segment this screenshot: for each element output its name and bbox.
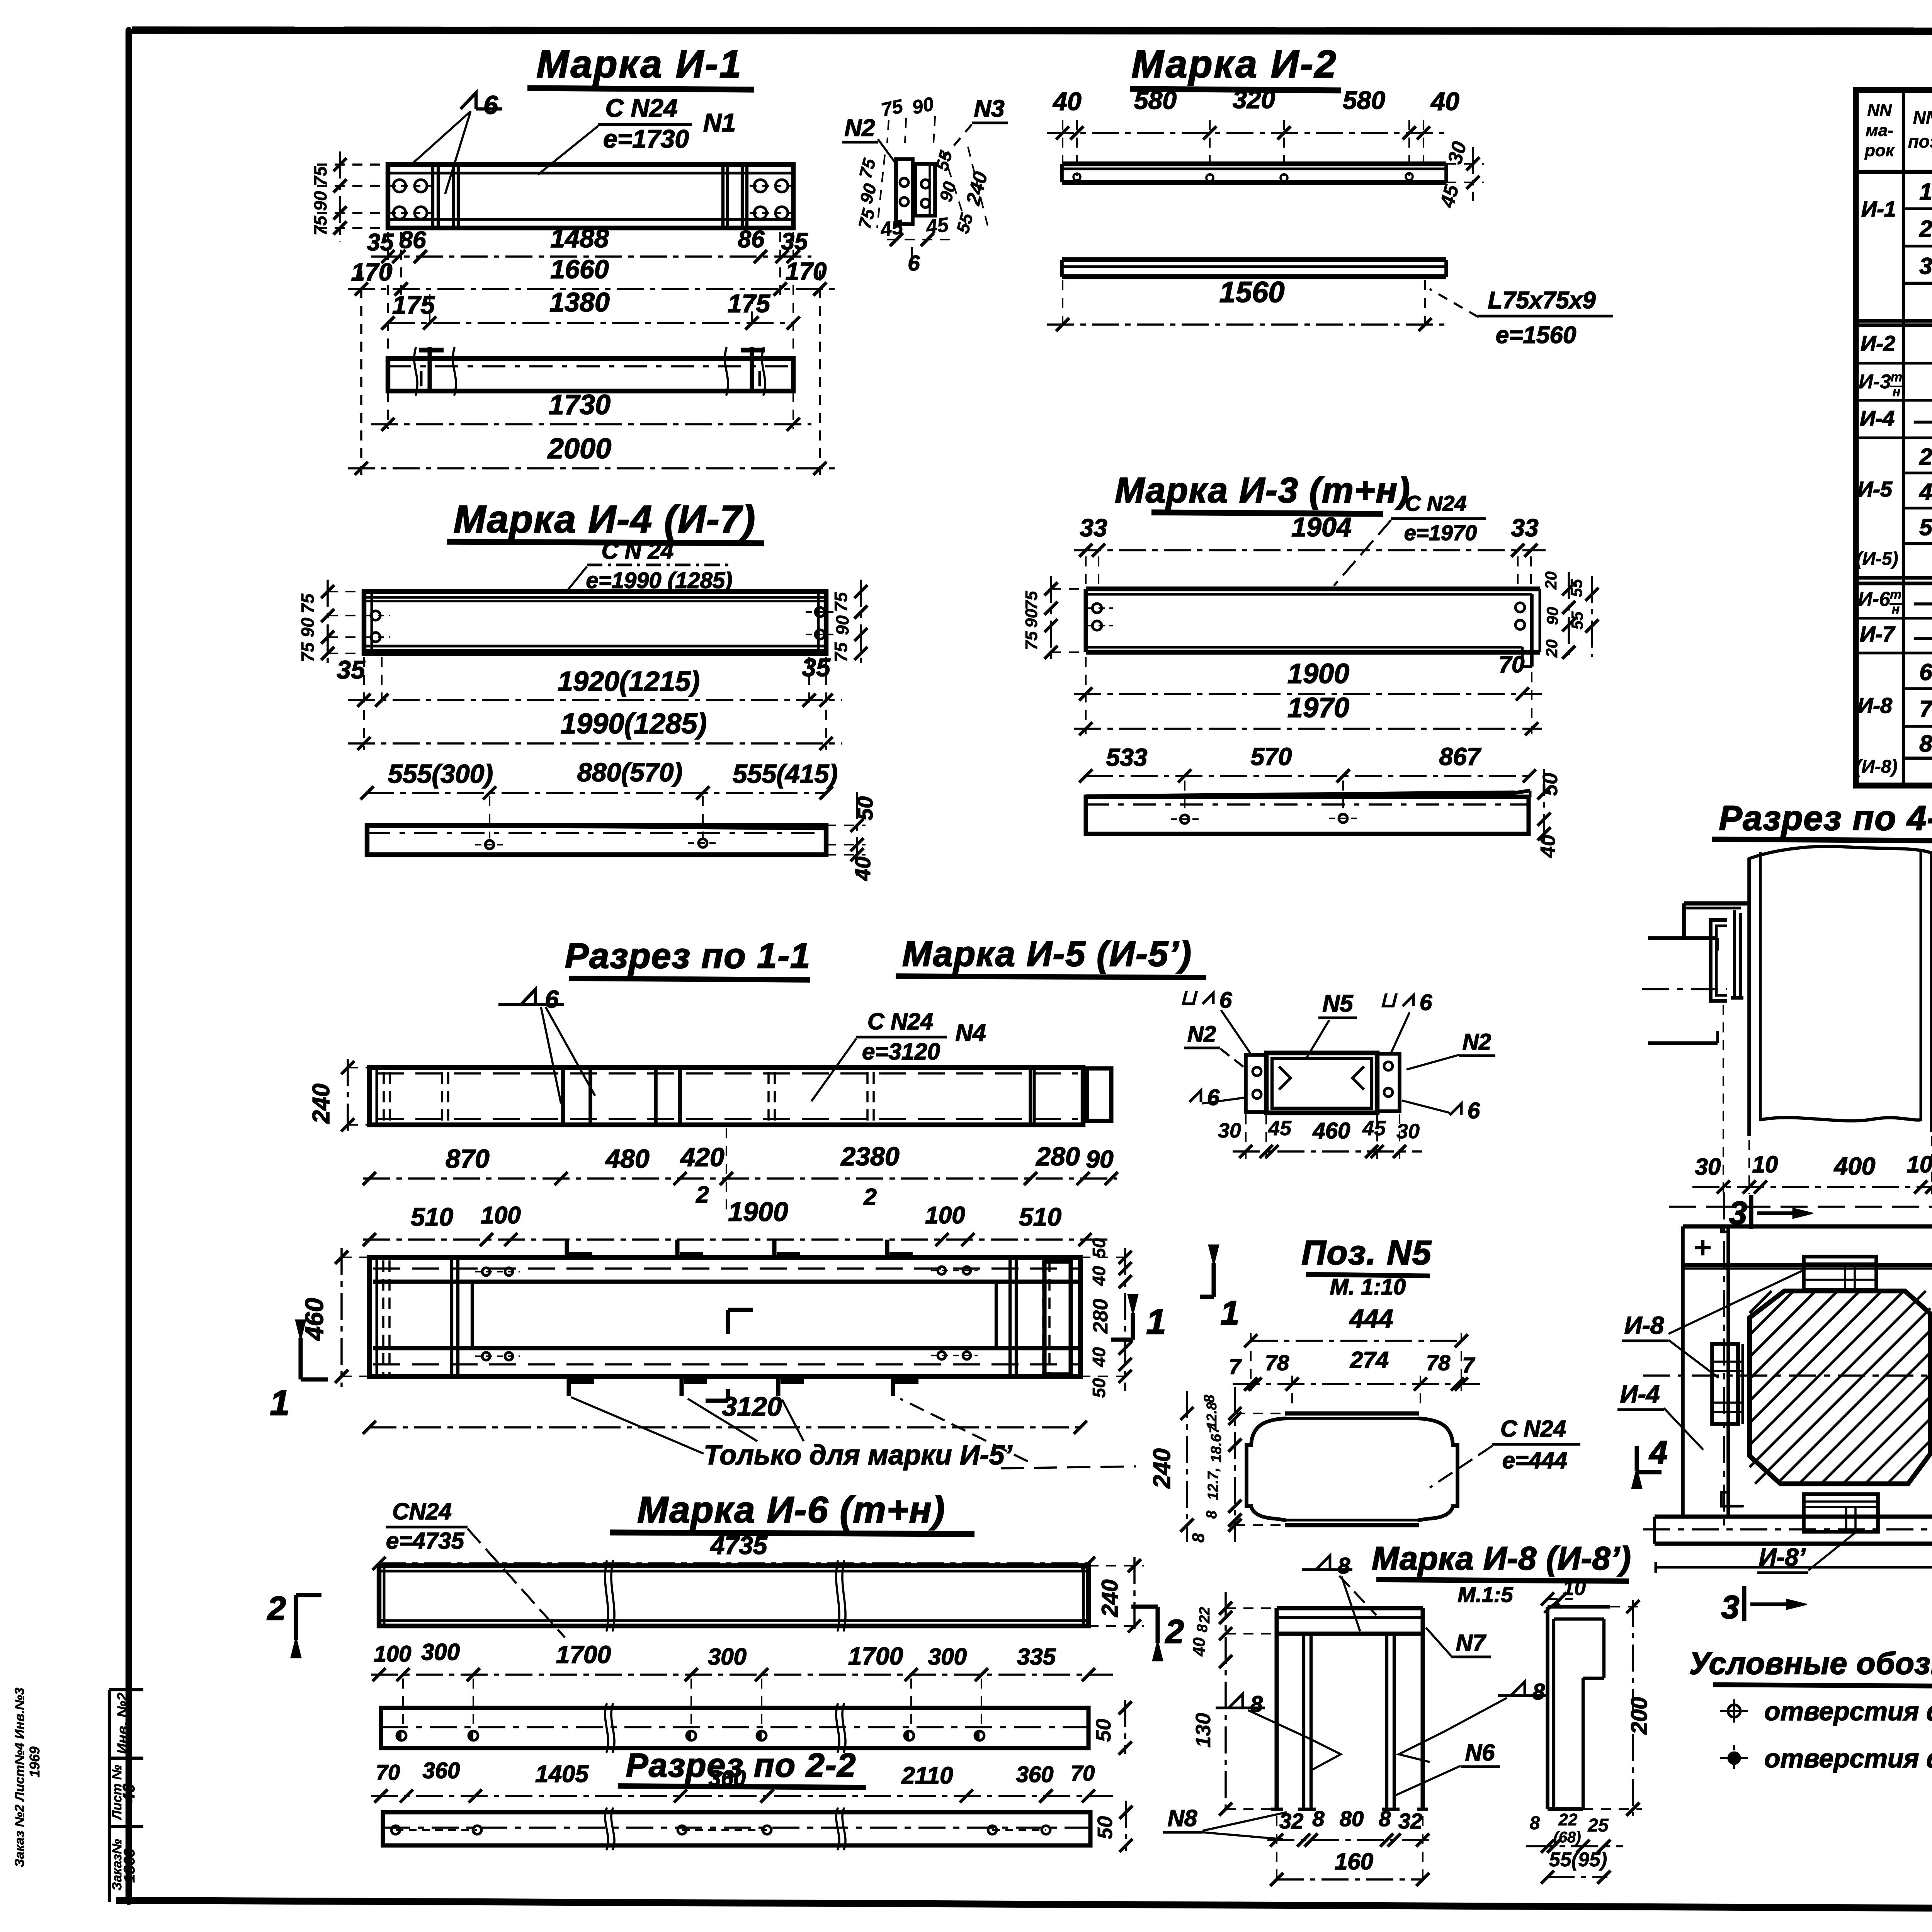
svg-text:335: 335 [1017, 1644, 1056, 1670]
svg-text:78: 78 [1265, 1350, 1289, 1375]
svg-text:170: 170 [351, 258, 393, 286]
svg-text:1900: 1900 [1287, 658, 1349, 689]
svg-text:N2: N2 [1187, 1022, 1216, 1047]
svg-text:444: 444 [1349, 1304, 1393, 1333]
weld mark Δ8 left [1216, 1692, 1341, 1770]
svg-text:1: 1 [1221, 1294, 1240, 1332]
title Поз. N5 [1301, 1233, 1432, 1299]
svg-text:1700: 1700 [848, 1642, 903, 1670]
И-6 flange rotated dim 50 [1092, 1700, 1132, 1755]
svg-text:555(415): 555(415) [733, 759, 838, 789]
plan И-2 top band [1683, 1226, 1932, 1269]
svg-text:50: 50 [1092, 1719, 1115, 1742]
svg-text:С N24: С N24 [867, 1009, 933, 1034]
svg-text:e=3120: e=3120 [862, 1039, 940, 1065]
svg-text:70: 70 [1071, 1761, 1095, 1785]
svg-text:(И-5): (И-5) [1856, 549, 1898, 569]
svg-text:8: 8 [1530, 1813, 1540, 1833]
beam И-4 bolt holes [367, 607, 835, 642]
svg-text:1730: 1730 [549, 389, 611, 420]
svg-text:М. 1:10: М. 1:10 [1330, 1274, 1406, 1299]
dimension extension lines И-1 [361, 232, 820, 475]
svg-text:50: 50 [1094, 1816, 1117, 1839]
section marker 1 поз [1200, 1245, 1239, 1332]
svg-text:200: 200 [1627, 1697, 1652, 1735]
specification table body rows [1914, 177, 1932, 760]
svg-text:35: 35 [367, 229, 394, 256]
svg-text:867: 867 [1439, 743, 1482, 770]
note Только для марки И-5 [571, 1397, 1136, 1471]
title Марка И-4 (И-7) [447, 498, 764, 543]
section marker 3 plan bottom [1721, 1586, 1807, 1625]
svg-text:L75x75x9: L75x75x9 [1488, 287, 1596, 314]
svg-text:1: 1 [270, 1383, 289, 1423]
dims 35 35 И-4 [337, 653, 831, 684]
svg-text:2: 2 [1919, 216, 1932, 242]
svg-text:50: 50 [1089, 1238, 1109, 1258]
svg-text:300: 300 [708, 1644, 747, 1670]
beam И-6 bottom strip [383, 1812, 1090, 1845]
svg-text:1405: 1405 [535, 1761, 589, 1787]
plan plus marks [1695, 1240, 1932, 1255]
svg-text:Разрез по 1-1: Разрез по 1-1 [565, 936, 811, 976]
svg-text:И-4: И-4 [1620, 1380, 1660, 1408]
dimension row 40 580 320 580 40 [1047, 85, 1459, 139]
svg-text:20: 20 [1542, 571, 1560, 590]
beam И-1 end plates [433, 165, 747, 228]
svg-text:Поз. N5: Поз. N5 [1301, 1233, 1432, 1272]
svg-text:6: 6 [908, 251, 920, 275]
svg-text:33: 33 [1080, 514, 1107, 542]
dims 7 78 274 78 7 [1229, 1333, 1480, 1410]
svg-text:N1: N1 [703, 108, 736, 137]
beam И-5 plan outline [369, 1257, 1080, 1376]
svg-text:т: т [1891, 370, 1902, 384]
left margin stamp boxes [109, 1690, 143, 1902]
dimension 1990(1285) [348, 657, 842, 750]
И-5 cross-section holes [1253, 1062, 1393, 1099]
svg-text:580: 580 [1134, 86, 1177, 114]
svg-text:С N24: С N24 [605, 94, 677, 122]
svg-text:55: 55 [1568, 611, 1586, 629]
svg-text:Только для марки И-5’: Только для марки И-5’ [704, 1440, 1013, 1471]
svg-text:35: 35 [781, 228, 808, 255]
beam И-6 bottom holes [391, 1826, 1050, 1834]
svg-text:рок: рок [1864, 141, 1895, 160]
svg-text:280: 280 [1035, 1142, 1080, 1171]
svg-text:2: 2 [267, 1590, 286, 1627]
label И-8 штрих plan bottom [1757, 1532, 1855, 1573]
beam И-3 plan view [1086, 791, 1530, 834]
beam И-5 plan end block [1044, 1262, 1071, 1374]
beam И-1 bolt holes right [750, 180, 793, 219]
svg-text:С N24: С N24 [1500, 1416, 1566, 1442]
pile hatching lines [1750, 1291, 1930, 1484]
dimension row 175 1380 175 [381, 287, 800, 330]
dims 533 570 867 [1079, 743, 1536, 782]
specification table header [1864, 98, 1932, 168]
beam И-3 bolt holes [1088, 603, 1525, 630]
svg-text:Марка И-6 (т+н): Марка И-6 (т+н) [637, 1489, 945, 1531]
И-5 cross-section side plates [1246, 1054, 1400, 1112]
beam И-1 plan clips [419, 347, 765, 391]
svg-text:75: 75 [298, 593, 318, 614]
svg-text:—: — [1914, 589, 1932, 615]
title Разрез по 2-2 [618, 1747, 866, 1787]
svg-text:3: 3 [1721, 1589, 1740, 1625]
label N2 left [1184, 1022, 1248, 1070]
legend hole d23 [1720, 1697, 1932, 1726]
svg-text:И-5: И-5 [1857, 477, 1893, 501]
angle И-2 top view [1062, 164, 1446, 182]
svg-text:40: 40 [1089, 1266, 1109, 1286]
svg-text:40: 40 [1430, 87, 1459, 116]
svg-text:Инв. №2: Инв. №2 [115, 1692, 131, 1754]
dimension 444 [1244, 1304, 1468, 1347]
svg-text:⊔: ⊔ [1180, 986, 1198, 1009]
svg-text:50: 50 [1539, 773, 1562, 796]
И-8 dim 160 [1270, 1816, 1429, 1886]
svg-text:1869: 1869 [121, 1848, 138, 1883]
svg-text:300: 300 [421, 1639, 460, 1665]
svg-text:130: 130 [1192, 1713, 1215, 1748]
И-8 bottom dims 32 8 80 8 32 [1267, 1806, 1434, 1847]
И-6 bottom rotated dim 50 [1094, 1801, 1133, 1852]
svg-text:И-8: И-8 [1857, 693, 1893, 718]
svg-text:6: 6 [483, 90, 498, 120]
svg-text:2380: 2380 [840, 1142, 899, 1171]
beam И-6 flange view [381, 1708, 1088, 1748]
svg-text:e=1970: e=1970 [1404, 520, 1477, 545]
svg-text:90: 90 [832, 615, 852, 635]
svg-text:N4: N4 [955, 1020, 986, 1046]
svg-text:70: 70 [376, 1760, 400, 1784]
svg-text:4: 4 [1649, 1434, 1668, 1471]
label И-4 plan left [1617, 1380, 1703, 1450]
plate N2 holes [900, 178, 908, 206]
label N8 [1163, 1805, 1287, 1839]
svg-text:N6: N6 [1465, 1740, 1495, 1765]
svg-text:22: 22 [1197, 1607, 1213, 1624]
И-8 front view walls [1271, 1608, 1428, 1809]
svg-text:45: 45 [1362, 1117, 1386, 1140]
svg-text:1488: 1488 [550, 224, 609, 253]
plan И-8 clamp bottom [1804, 1494, 1878, 1532]
svg-text:50: 50 [1089, 1378, 1109, 1398]
svg-text:Марка И-2: Марка И-2 [1131, 43, 1337, 86]
svg-text:280: 280 [1089, 1299, 1112, 1334]
label N7 [1426, 1628, 1491, 1657]
svg-text:—: — [1914, 408, 1932, 434]
plan top dashed line [1669, 1206, 1932, 1208]
И-5 right rotated dims 50 40 280 40 50 [1080, 1238, 1132, 1398]
svg-text:8: 8 [1312, 1806, 1325, 1831]
dimension row 35 86 1488 86 35 [367, 224, 811, 263]
svg-text:поз.: поз. [1908, 131, 1932, 151]
svg-text:460: 460 [1313, 1118, 1350, 1143]
svg-text:т: т [1890, 587, 1901, 602]
svg-text:1969: 1969 [27, 1747, 43, 1777]
svg-text:86: 86 [738, 226, 765, 253]
svg-text:Марка И-4 (И-7): Марка И-4 (И-7) [454, 498, 756, 541]
svg-text:6: 6 [1468, 1098, 1480, 1123]
plate rotated dims right 55 90 240 55 [932, 147, 992, 235]
svg-text:Марка И-1: Марка И-1 [536, 43, 742, 86]
svg-text:И-8: И-8 [1624, 1311, 1664, 1339]
И-8 left dims [1190, 1592, 1274, 1816]
svg-text:20: 20 [1543, 639, 1561, 658]
svg-text:N5: N5 [1322, 990, 1354, 1017]
section marker 1 left [270, 1320, 328, 1423]
label ⊔Δ6 left [1180, 986, 1252, 1056]
label L75x75x9 e=1560 [1430, 287, 1613, 349]
dimension 4735 [372, 1531, 1095, 1570]
dimension 2000 [348, 432, 835, 475]
svg-text:100: 100 [925, 1202, 965, 1229]
beam И-5 stiffeners dashed [384, 1072, 874, 1121]
svg-text:75: 75 [298, 642, 318, 662]
far left margin note [12, 1687, 43, 1867]
dimension 1900 [1074, 658, 1542, 701]
svg-text:570: 570 [1251, 743, 1292, 770]
angle И-2 side view [1062, 260, 1446, 277]
svg-text:90: 90 [910, 93, 935, 118]
dimension row 170 1660 170 [348, 255, 835, 296]
dims 70 360 1405 360 2110 360 70 [371, 1758, 1113, 1803]
И-5 cross-section weld triangles [1279, 1066, 1364, 1090]
dims 33 1904 33 [1074, 512, 1546, 591]
svg-text:880(570): 880(570) [577, 758, 682, 787]
legend hole d28 [1720, 1744, 1932, 1773]
И-8 side dim 200 [1583, 1600, 1652, 1816]
svg-text:2: 2 [863, 1184, 876, 1210]
svg-text:78: 78 [1426, 1350, 1451, 1375]
svg-text:40: 40 [119, 1783, 138, 1803]
svg-text:8: 8 [1919, 731, 1932, 757]
plan side band left [1683, 1226, 1743, 1517]
svg-text:1380: 1380 [549, 287, 610, 317]
svg-text:7: 7 [1207, 1425, 1222, 1433]
svg-text:274: 274 [1350, 1347, 1389, 1373]
svg-text:320: 320 [1233, 85, 1275, 114]
svg-text:(И-8): (И-8) [1855, 757, 1897, 777]
svg-text:Марка И-8 (И-8’): Марка И-8 (И-8’) [1372, 1540, 1631, 1577]
И-5 section dims 30 45 460 45 30 [1218, 1114, 1422, 1159]
section marker 3 upper [1729, 1195, 1813, 1231]
svg-text:510: 510 [1019, 1202, 1061, 1231]
svg-text:М.1:5: М.1:5 [1458, 1582, 1513, 1607]
И-8 front view top plates [1277, 1608, 1423, 1634]
svg-text:12.8: 12.8 [1204, 1402, 1219, 1429]
rotated dim 240 И-6 [1088, 1557, 1144, 1634]
svg-text:отверстия d=23 мм: отверстия d=23 мм [1764, 1697, 1932, 1726]
beam И-4 top view outline [364, 592, 826, 653]
И-2 dim extension lines [1063, 120, 1423, 176]
svg-text:90: 90 [1543, 607, 1561, 625]
beam И-4 plan view [367, 825, 826, 855]
svg-text:33: 33 [1511, 514, 1538, 542]
svg-text:10: 10 [1563, 1577, 1586, 1600]
label N5 [1306, 990, 1357, 1059]
leader to beam И-1 [538, 126, 598, 175]
vertical dims 20 90 20 55 55 И-3 right [1542, 571, 1599, 661]
beam И-6 bottom break marks [605, 1808, 845, 1849]
svg-text:1: 1 [1919, 179, 1932, 205]
svg-text:300: 300 [928, 1644, 967, 1670]
svg-text:7: 7 [1462, 1353, 1475, 1377]
svg-text:N2: N2 [844, 115, 875, 141]
dimension 1560 [1047, 276, 1447, 332]
dims 30 10 400 10 30 Разрез 4-4 [1692, 1005, 1932, 1194]
plan И-8 plate left [1712, 1344, 1743, 1424]
beam И-6 break marks [605, 1561, 845, 1631]
И-5 cross-section box [1266, 1053, 1377, 1113]
svg-text:480: 480 [605, 1144, 650, 1173]
svg-text:4: 4 [1919, 479, 1932, 505]
label СN24 e=4735 [386, 1498, 565, 1638]
dimension 1970 [1074, 657, 1542, 735]
label СN24 e=1990(1285) [565, 538, 734, 594]
И-8 side dim 10 [1541, 1577, 1586, 1605]
label N6 [1396, 1740, 1500, 1795]
weld mark Δ6 И-5 [498, 985, 595, 1104]
svg-text:100: 100 [481, 1202, 520, 1229]
vertical dims 75 90 75 И-4 right [831, 580, 867, 665]
svg-text:420: 420 [680, 1143, 724, 1172]
label N2 plate [842, 115, 897, 165]
pile hatched cross-section [1750, 1291, 1930, 1484]
svg-text:2110: 2110 [901, 1762, 953, 1789]
beam И-5 plan bolt holes [475, 1267, 978, 1360]
svg-text:3120: 3120 [722, 1391, 782, 1422]
svg-text:И-4: И-4 [1860, 406, 1895, 430]
section marker 2 right [1131, 1607, 1184, 1661]
svg-text:240: 240 [308, 1083, 335, 1124]
label N3 plate [945, 95, 1008, 156]
dimension 1730 [371, 389, 811, 431]
svg-text:32: 32 [1279, 1809, 1303, 1833]
svg-text:1700: 1700 [556, 1641, 611, 1668]
vertical dims 75 90 75 И-1 [310, 151, 388, 241]
dimension 3120 [363, 1391, 1087, 1434]
dims 555(300) 880(570) 555(415) [361, 758, 838, 799]
svg-text:4735: 4735 [710, 1531, 768, 1560]
svg-text:8: 8 [1532, 1679, 1545, 1704]
dims 510 100 1900 100 510 [363, 1197, 1113, 1246]
beam И-5 stiffeners solid [563, 1068, 1034, 1125]
svg-text:160: 160 [1335, 1849, 1373, 1874]
svg-text:175: 175 [392, 291, 435, 319]
svg-text:Заказ №2 Лист№4 Инв.№3: Заказ №2 Лист№4 Инв.№3 [12, 1687, 27, 1867]
pile Разрез 4-4 [1749, 846, 1932, 1136]
plate N3 holes [921, 180, 930, 207]
svg-text:8: 8 [1201, 1395, 1218, 1403]
svg-text:1970: 1970 [1287, 692, 1349, 723]
svg-text:1900: 1900 [728, 1197, 788, 1227]
svg-text:8: 8 [1189, 1533, 1208, 1543]
svg-text:75: 75 [310, 215, 330, 236]
label И-8 plan left [1622, 1269, 1805, 1378]
svg-text:40: 40 [1052, 87, 1082, 116]
plate N2 front [896, 159, 913, 224]
svg-text:2: 2 [696, 1182, 709, 1207]
svg-text:90: 90 [1022, 609, 1041, 628]
label СN24 e=444 [1430, 1416, 1580, 1488]
svg-text:8: 8 [1194, 1624, 1211, 1633]
specification table grid [1856, 90, 1932, 786]
svg-text:86: 86 [400, 227, 426, 253]
svg-text:18.6: 18.6 [1208, 1434, 1225, 1463]
diaphragm Поз N5 profile [1247, 1413, 1458, 1525]
label СN24 e=1970 И-3 [1334, 491, 1486, 586]
beam И-4 plan holes [475, 796, 719, 849]
svg-text:1660: 1660 [550, 255, 609, 284]
И-8 side bottom dims [1526, 1810, 1623, 1884]
title Разрез по 4-4 [1712, 799, 1932, 841]
dims 870 480 420 2380 280 90 [363, 1128, 1118, 1210]
beam И-1 plan view [388, 359, 793, 391]
svg-text:75: 75 [1022, 591, 1041, 610]
svg-text:90: 90 [298, 617, 318, 638]
title Разрез по 1-1 [565, 936, 811, 980]
plate dims 45 45 6 [879, 213, 951, 275]
beam И-6 top view [379, 1566, 1088, 1626]
И-4 plan rotated dims 50 40 [826, 792, 877, 881]
svg-text:И-3: И-3 [1859, 371, 1891, 393]
svg-text:6: 6 [1219, 988, 1232, 1013]
label СN24 e=1730 N1 [598, 94, 736, 153]
svg-text:ма-: ма- [1866, 121, 1893, 140]
section marker 4 поз [1632, 1434, 1667, 1488]
svg-text:N7: N7 [1456, 1630, 1486, 1656]
svg-text:175: 175 [728, 289, 770, 318]
svg-text:N2: N2 [1463, 1029, 1491, 1054]
beam И-1 plan break marks [414, 348, 765, 395]
labels 75 90 above plates [879, 93, 935, 143]
svg-text:⊔: ⊔ [1380, 988, 1398, 1012]
svg-text:2: 2 [1919, 444, 1932, 470]
svg-text:7: 7 [1229, 1354, 1242, 1379]
svg-text:6: 6 [1420, 990, 1432, 1015]
plate rotated dims 75 90 75 [854, 155, 885, 231]
svg-text:8: 8 [1379, 1806, 1391, 1831]
svg-text:45: 45 [924, 213, 950, 239]
svg-text:2: 2 [1165, 1613, 1184, 1650]
label N2 right [1406, 1029, 1495, 1070]
svg-text:СN24: СN24 [392, 1498, 451, 1524]
label Δ6 right low [1402, 1098, 1480, 1123]
svg-text:580: 580 [1343, 86, 1385, 114]
svg-text:75: 75 [831, 592, 851, 612]
svg-text:e=1560: e=1560 [1496, 322, 1577, 349]
svg-text:25: 25 [1587, 1815, 1609, 1836]
diaphragm small dims left [1189, 1387, 1283, 1543]
angle И-2 holes [1073, 173, 1413, 181]
svg-text:360: 360 [709, 1766, 746, 1791]
svg-text:—: — [1914, 624, 1932, 650]
И-6 dim extension lines [403, 1679, 981, 1724]
svg-text:8: 8 [1338, 1553, 1350, 1578]
plate N3 front [915, 164, 935, 216]
svg-text:5: 5 [1919, 514, 1932, 540]
weld mark Δ8 top [1302, 1553, 1376, 1631]
svg-text:10: 10 [1752, 1151, 1778, 1177]
dimension 1920(1215) [348, 657, 842, 707]
vertical dims 75 90 75 И-3 left [1022, 576, 1086, 665]
И-5 left rotated dim 460 [300, 1248, 369, 1387]
title Марка И-8 (И-8 штрих) [1372, 1540, 1631, 1607]
svg-text:360: 360 [423, 1758, 460, 1783]
